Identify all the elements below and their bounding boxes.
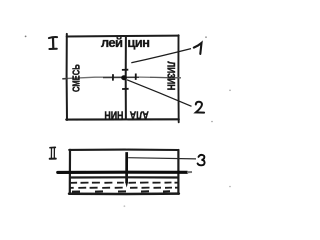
tray right wall — [177, 150, 179, 194]
figure I label (roman numeral I) — [49, 37, 57, 49]
leader line to label 1 — [131, 49, 191, 63]
liquid hatching row 2 — [70, 187, 178, 189]
liquid surface line — [69, 176, 178, 178]
tray left wall — [69, 150, 71, 194]
tick on vertical line (upper) — [122, 69, 128, 71]
faint scan speck near top left — [25, 36, 27, 38]
label 1 — [194, 43, 202, 54]
tray top edge — [69, 149, 178, 151]
tray (figure II chromatography tank) — [69, 150, 179, 194]
faint scan speck right of tray — [229, 186, 231, 188]
svg-text:цин: цин — [127, 35, 149, 50]
faint scan speck right margin — [229, 90, 231, 92]
paper strip (thick horizontal bar) — [58, 171, 187, 174]
svg-text:АЛА: АЛА — [130, 108, 149, 120]
tick on vertical line (lower) — [122, 88, 129, 90]
left edge — [66, 34, 68, 120]
chamber rectangle (figure I) — [66, 34, 179, 122]
svg-text:СМЕСЬ: СМЕСЬ — [70, 64, 81, 92]
leader line to label 3 — [128, 158, 196, 159]
faint scan speck below tray — [124, 205, 126, 207]
right edge — [177, 35, 179, 122]
leader line to label 2 — [127, 80, 192, 107]
figure II label (roman numeral II) — [50, 147, 56, 158]
bottom edge — [66, 118, 179, 120]
label 2 — [196, 102, 204, 113]
tick on horizontal line (left) — [112, 74, 114, 80]
label 3 — [198, 155, 205, 165]
horizontal solvent-front line — [62, 77, 181, 79]
tick on horizontal line (right) — [135, 74, 137, 80]
svg-text:ЛИЗИН: ЛИЗИН — [164, 61, 176, 90]
liquid hatching row 1 — [70, 182, 178, 184]
faint scan speck near label 1 — [205, 36, 207, 38]
electrode / start line marker (vertical bar) — [125, 152, 128, 183]
faint scan speck upper right of tray — [211, 121, 213, 123]
vertical start line — [125, 36, 127, 119]
top edge — [67, 35, 179, 38]
tray bottom edge — [69, 192, 179, 195]
liquid hatching row 3 (merges with tray bottom) — [72, 190, 170, 192]
centre spot (start point) — [121, 75, 127, 80]
svg-text:НИН: НИН — [104, 108, 123, 120]
svg-text:лей: лей — [101, 35, 123, 50]
